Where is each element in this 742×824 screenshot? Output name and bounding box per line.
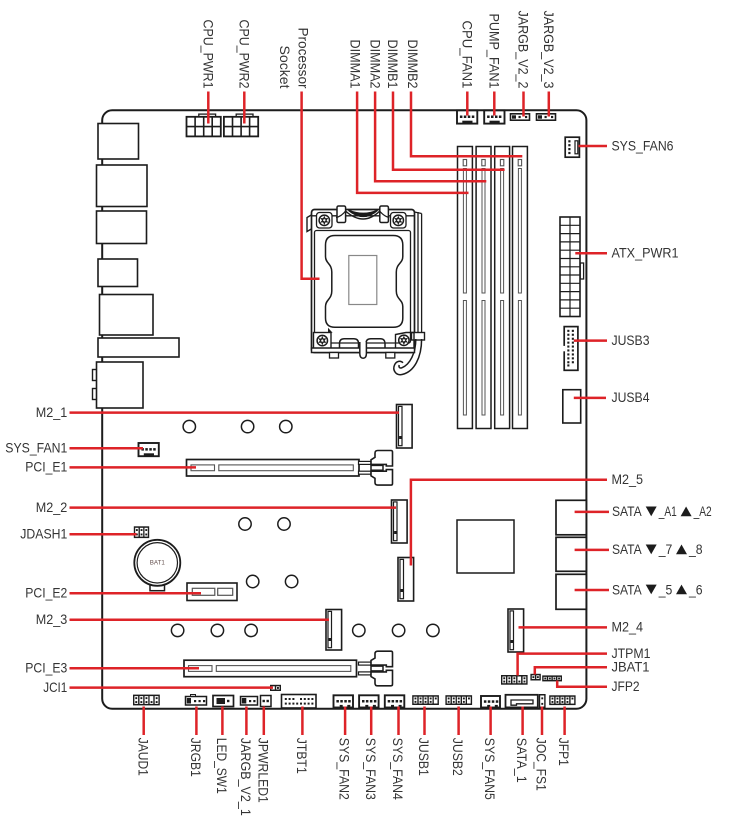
svg-text:_8: _8 — [688, 542, 703, 557]
svg-text:JCI1: JCI1 — [43, 680, 67, 695]
svg-text:M2_3: M2_3 — [36, 612, 68, 627]
svg-text:JARGB_V2_1: JARGB_V2_1 — [238, 738, 253, 816]
svg-text:JUSB1: JUSB1 — [416, 738, 431, 776]
svg-text:JUSB3: JUSB3 — [612, 333, 650, 348]
svg-text:DIMMA2: DIMMA2 — [367, 40, 382, 89]
svg-text:JARGB_V2_3: JARGB_V2_3 — [541, 11, 556, 89]
svg-text:JUSB2: JUSB2 — [450, 738, 465, 776]
svg-text:SATA: SATA — [612, 542, 642, 557]
svg-text:CPU_FAN1: CPU_FAN1 — [459, 21, 474, 89]
svg-text:JOC_FS1: JOC_FS1 — [534, 738, 549, 791]
svg-text:SYS_FAN4: SYS_FAN4 — [390, 738, 405, 800]
svg-text:JPWRLED1: JPWRLED1 — [255, 738, 270, 803]
svg-text:SYS_FAN3: SYS_FAN3 — [363, 738, 378, 800]
svg-text:Socket: Socket — [277, 46, 292, 89]
svg-text:PUMP_FAN1: PUMP_FAN1 — [486, 14, 501, 89]
svg-text:PCI_E3: PCI_E3 — [25, 661, 67, 676]
svg-text:DIMMB2: DIMMB2 — [405, 40, 420, 89]
svg-text:SYS_FAN2: SYS_FAN2 — [337, 738, 352, 800]
svg-text:JDASH1: JDASH1 — [20, 527, 67, 542]
svg-text:JBAT1: JBAT1 — [612, 660, 650, 675]
svg-text:_A2: _A2 — [693, 504, 712, 519]
svg-text:M2_1: M2_1 — [36, 405, 68, 420]
svg-text:JFP2: JFP2 — [612, 679, 640, 694]
svg-text:JTBT1: JTBT1 — [294, 738, 309, 774]
svg-text:SATA: SATA — [612, 582, 642, 597]
svg-text:SYS_FAN6: SYS_FAN6 — [612, 138, 674, 153]
svg-text:JAUD1: JAUD1 — [135, 738, 150, 776]
svg-text:LED_SW1: LED_SW1 — [214, 738, 229, 794]
svg-text:DIMMA1: DIMMA1 — [348, 40, 363, 89]
svg-text:_7: _7 — [658, 542, 672, 557]
svg-text:SATA: SATA — [612, 504, 642, 519]
svg-text:_5: _5 — [658, 582, 673, 597]
svg-text:JUSB4: JUSB4 — [612, 390, 650, 405]
svg-text:_A1: _A1 — [658, 504, 677, 519]
svg-text:_6: _6 — [688, 582, 703, 597]
svg-text:JRGB1: JRGB1 — [188, 738, 203, 777]
svg-text:M2_4: M2_4 — [612, 620, 644, 635]
svg-text:JARGB_V2_2: JARGB_V2_2 — [516, 11, 531, 89]
svg-text:M2_2: M2_2 — [36, 500, 68, 515]
svg-text:PCI_E2: PCI_E2 — [25, 586, 67, 601]
svg-text:PCI_E1: PCI_E1 — [25, 460, 67, 475]
svg-text:DIMMB1: DIMMB1 — [385, 40, 400, 89]
svg-text:Processor: Processor — [295, 28, 310, 89]
svg-text:M2_5: M2_5 — [612, 472, 644, 487]
svg-text:JFP1: JFP1 — [556, 738, 571, 766]
svg-text:SYS_FAN5: SYS_FAN5 — [482, 738, 497, 800]
svg-text:SYS_FAN1: SYS_FAN1 — [5, 441, 67, 456]
svg-text:ATX_PWR1: ATX_PWR1 — [612, 246, 679, 261]
svg-text:CPU_PWR1: CPU_PWR1 — [200, 20, 215, 89]
svg-text:CPU_PWR2: CPU_PWR2 — [236, 20, 251, 89]
svg-text:SATA_1: SATA_1 — [514, 738, 529, 783]
svg-text:BAT1: BAT1 — [150, 560, 166, 567]
